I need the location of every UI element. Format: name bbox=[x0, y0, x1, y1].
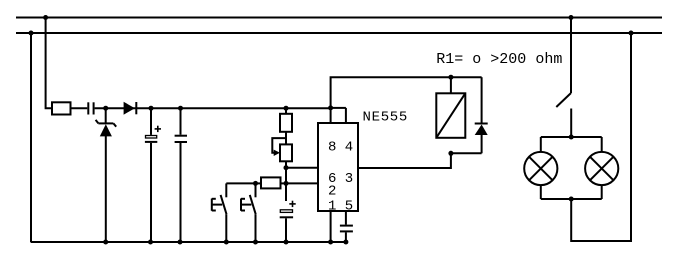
node J: relay high side bbox=[448, 75, 453, 80]
capacitor C2 (electrolytic smoothing) bbox=[150, 108, 152, 135]
wire: R1 to C1 bbox=[71, 107, 88, 109]
capacitor C4 (electrolytic timing) bbox=[289, 203, 295, 205]
wire: input drop from rail L1 bbox=[46, 18, 52, 109]
node E: threshold junction bbox=[284, 165, 289, 170]
node: lamp top junction bbox=[569, 135, 574, 140]
svg-text:2: 2 bbox=[328, 183, 336, 199]
zener diode ZD1 bbox=[105, 108, 107, 122]
node I: relay low side bbox=[448, 151, 453, 156]
node: return tap on rail L2 bbox=[629, 31, 634, 36]
svg-text:R1= o >200 ohm: R1= o >200 ohm bbox=[436, 51, 562, 68]
node: zener to bottom rail bbox=[103, 240, 108, 245]
node D: timing chain tap bbox=[284, 106, 289, 111]
pin 1 lead to ground rail bbox=[330, 211, 332, 242]
svg-text:NE555: NE555 bbox=[363, 110, 409, 126]
node: C2 to bottom rail bbox=[148, 240, 153, 245]
supply rail L1 (top) bbox=[16, 17, 662, 19]
pin 8 lead bbox=[330, 108, 332, 123]
wire: pin 6 stub bbox=[286, 167, 318, 169]
capacitor C3 bbox=[180, 108, 182, 135]
op-amp U1 NE555 body bbox=[318, 123, 358, 211]
diode D1 bbox=[124, 102, 135, 115]
node H: Vcc junction bbox=[328, 105, 333, 110]
wire: main positive line bbox=[95, 107, 331, 109]
node: C4 to bottom rail bbox=[284, 240, 289, 245]
capacitor C1 (series) bbox=[87, 102, 89, 114]
switch blade bbox=[556, 93, 571, 107]
wire: R2 to P1 bbox=[285, 132, 287, 145]
wire: button tops bbox=[226, 182, 255, 184]
node: pin1 on bottom rail bbox=[328, 240, 333, 245]
node: lamp bottom junction bbox=[569, 197, 574, 202]
potentiometer P1 (trimmer) bbox=[280, 144, 292, 161]
wire: P1 down to node E bbox=[285, 161, 287, 201]
node: switch tap on rail L1 bbox=[569, 15, 574, 20]
wire: lamp return to rail L2 bbox=[571, 33, 631, 241]
push button S2 bbox=[255, 183, 257, 197]
wire: pin 2 stub bbox=[286, 182, 318, 184]
pin 4 lead bbox=[345, 108, 347, 123]
svg-text:1 5: 1 5 bbox=[328, 199, 353, 215]
lamp E2 bbox=[585, 152, 618, 185]
bottom return rail bbox=[31, 241, 347, 243]
node B: rectified positive junction bbox=[149, 106, 154, 111]
push button S1 bbox=[225, 183, 227, 197]
node: S2 to bottom rail bbox=[253, 240, 258, 245]
resistor R1 (series input) bbox=[52, 102, 71, 114]
node F: trigger junction bbox=[284, 181, 289, 186]
wire: relay low to D2 bbox=[451, 152, 482, 154]
node: tap on rail L2 bbox=[29, 31, 34, 36]
svg-text:8 4: 8 4 bbox=[328, 139, 353, 155]
wire: left drop from rail L2 to bottom rail bbox=[30, 33, 32, 242]
capacitor C5 (pin 5 bypass) bbox=[340, 225, 353, 227]
node: S1 to bottom rail bbox=[224, 240, 229, 245]
wire: lamp bottom bar bbox=[541, 198, 602, 200]
node: C3 to bottom rail bbox=[178, 240, 183, 245]
lamp E1 lead bbox=[540, 137, 542, 152]
wire: lamp top bar bbox=[541, 136, 602, 138]
wire: pin4 to node H bbox=[331, 107, 346, 109]
pin 5 lead bbox=[345, 211, 347, 225]
lamp E2 lead bbox=[601, 137, 603, 152]
node: C5 on bottom rail bbox=[343, 240, 348, 245]
lamp E1 bbox=[524, 152, 557, 185]
switch lower contact wire bbox=[570, 109, 572, 138]
wire: pin 3 output to relay bbox=[358, 153, 451, 168]
wire: Vcc up and over to relay bbox=[331, 77, 482, 108]
resistor R2 (timing, upper) bbox=[285, 108, 287, 114]
supply rail L2 (second) bbox=[16, 32, 662, 34]
node G: push-button junction bbox=[253, 181, 258, 186]
node C: C3 tap on positive line bbox=[178, 106, 183, 111]
node: tap on rail L1 bbox=[43, 15, 48, 20]
relay top lead bbox=[450, 77, 452, 93]
node A: C1/D1/ZD junction bbox=[103, 106, 108, 111]
resistor R3 (trigger pull) bbox=[261, 177, 281, 188]
diode D2 (flyback) bbox=[481, 77, 483, 122]
switch S3 (relay contact) bbox=[570, 18, 572, 94]
relay K1 coil bbox=[436, 93, 465, 138]
